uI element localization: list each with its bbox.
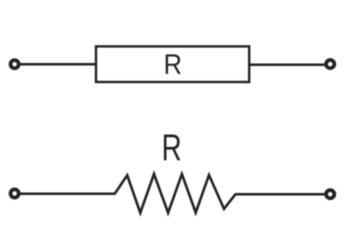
wire: [20, 192, 115, 195]
label R (bottom): [164, 135, 181, 161]
terminal T1 (top-left): [11, 60, 19, 68]
wire: [235, 193, 325, 196]
resistor R (ANSI zigzag symbol): [115, 174, 236, 213]
terminal T3 (bottom-left): [11, 189, 19, 197]
terminal T2 (top-right): [326, 60, 334, 68]
wire: [20, 63, 96, 66]
wire: [249, 64, 325, 67]
terminal T4 (bottom-right): [326, 190, 334, 198]
resistor R (IEC box symbol): [96, 46, 249, 82]
label R (top): [166, 54, 181, 74]
